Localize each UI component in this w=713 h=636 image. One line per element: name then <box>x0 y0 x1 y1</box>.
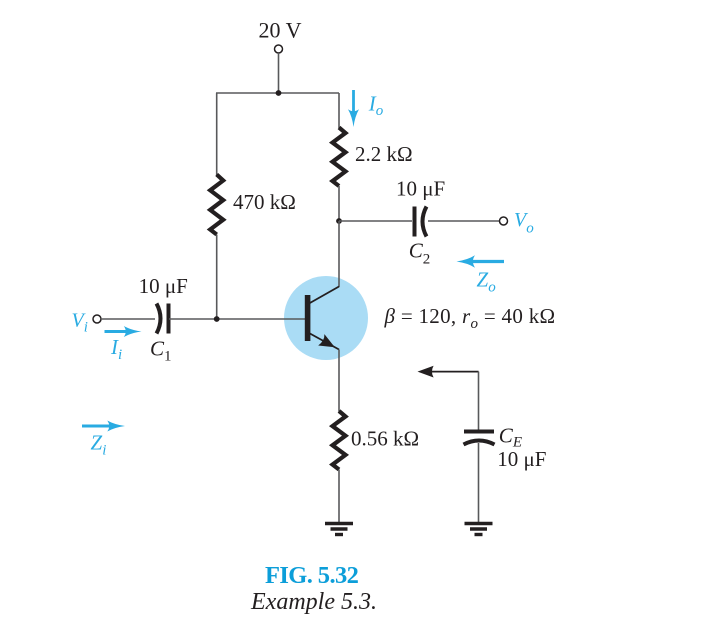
node collector output <box>336 218 342 224</box>
arrow Io (blue, down) <box>348 90 359 127</box>
wire RE to ground <box>338 470 340 523</box>
wire collector node to C2 <box>339 220 412 222</box>
capacitor C1 10 uF <box>157 304 169 334</box>
arrow Zi (blue, right) <box>82 421 125 432</box>
svg-text:20 V: 20 V <box>259 18 302 43</box>
wire 470k to base node <box>216 235 218 320</box>
svg-text:C1: C1 <box>150 337 172 365</box>
svg-text:FIG. 5.32: FIG. 5.32 <box>265 562 359 589</box>
svg-text:Zo: Zo <box>477 268 497 296</box>
svg-text:10 μF: 10 μF <box>497 447 546 471</box>
capacitor C2 10 uF <box>415 207 427 237</box>
resistor RC 2.2 kOhm <box>333 128 346 187</box>
ground (CE) <box>465 524 493 535</box>
input terminal Vi <box>93 315 101 323</box>
svg-text:β = 120, ro = 40 kΩ: β = 120, ro = 40 kΩ <box>384 304 556 332</box>
svg-text:Io: Io <box>368 92 384 120</box>
node at top rail junction <box>276 90 282 96</box>
arrow Ii (blue, right) <box>105 326 142 337</box>
wire CE branch down <box>478 372 480 430</box>
wire supply to top rail <box>278 53 280 93</box>
node base junction <box>214 316 220 322</box>
wire CE to ground <box>478 443 480 522</box>
wire collector node down to transistor <box>338 221 340 287</box>
wire 2.2k to collector node <box>338 186 340 221</box>
arrow to CE branch (black, left) <box>418 366 479 378</box>
resistor RB 470 kOhm <box>210 175 223 235</box>
transistor Q1 symbol <box>305 287 339 350</box>
output terminal Vo <box>500 217 508 225</box>
wire input terminal to C1 <box>101 318 155 320</box>
wire emitter down <box>338 350 340 412</box>
svg-text:Ii: Ii <box>110 335 122 363</box>
wire top rail to 2.2k <box>338 93 340 128</box>
supply terminal 20 V <box>275 45 283 53</box>
wire top rail <box>216 92 339 94</box>
arrow Zo (blue, left) <box>457 255 505 267</box>
transistor Q1 highlight circle <box>284 276 368 360</box>
svg-text:Example 5.3.: Example 5.3. <box>250 589 377 615</box>
svg-text:470 kΩ: 470 kΩ <box>233 190 296 214</box>
resistor RE 0.56 kOhm <box>333 411 346 470</box>
svg-text:Vo: Vo <box>514 209 534 237</box>
svg-text:Zi: Zi <box>91 431 107 459</box>
svg-text:2.2 kΩ: 2.2 kΩ <box>355 142 413 166</box>
wire C2 to output terminal <box>428 220 500 222</box>
wire C1 to base <box>169 318 305 320</box>
capacitor CE 10 uF <box>464 432 495 445</box>
svg-text:C2: C2 <box>409 239 431 268</box>
wire top rail to 470k <box>216 93 218 176</box>
ground (emitter) <box>325 524 353 535</box>
svg-text:Vi: Vi <box>72 310 88 336</box>
svg-text:0.56 kΩ: 0.56 kΩ <box>351 427 419 451</box>
svg-text:10 μF: 10 μF <box>139 274 188 298</box>
svg-text:10 μF: 10 μF <box>396 177 445 201</box>
